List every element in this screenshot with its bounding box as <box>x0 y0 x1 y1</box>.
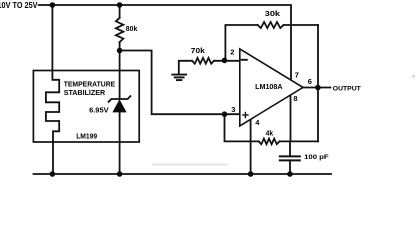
svg-text:10V TO 25V: 10V TO 25V <box>0 0 38 10</box>
svg-text:8: 8 <box>293 94 297 103</box>
svg-text:STABILIZER: STABILIZER <box>64 88 106 97</box>
svg-text:100 pF: 100 pF <box>304 154 329 161</box>
svg-text:3: 3 <box>231 105 235 114</box>
svg-text:6.95V: 6.95V <box>89 105 109 114</box>
svg-text:4k: 4k <box>266 129 274 138</box>
svg-text:70k: 70k <box>191 46 205 55</box>
svg-text:30k: 30k <box>265 9 280 18</box>
svg-text:LM199: LM199 <box>76 131 97 140</box>
svg-text:OUTPUT: OUTPUT <box>333 85 362 92</box>
svg-text:6: 6 <box>308 77 312 86</box>
svg-text:7: 7 <box>295 70 299 79</box>
svg-text:LM108A: LM108A <box>255 82 283 91</box>
svg-text:80k: 80k <box>126 26 138 33</box>
svg-text:2: 2 <box>230 48 234 57</box>
